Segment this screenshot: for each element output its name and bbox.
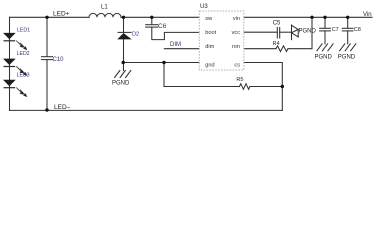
svg-text:LED3: LED3 bbox=[17, 73, 30, 79]
svg-text:D2: D2 bbox=[132, 31, 139, 37]
svg-text:Vin: Vin bbox=[363, 12, 372, 18]
svg-text:L1: L1 bbox=[101, 4, 108, 10]
svg-text:gnd: gnd bbox=[205, 62, 214, 68]
svg-text:boot: boot bbox=[205, 30, 216, 36]
svg-text:vin: vin bbox=[233, 16, 240, 22]
svg-text:LED–: LED– bbox=[54, 104, 71, 111]
svg-text:C8: C8 bbox=[354, 27, 361, 33]
svg-text:C7: C7 bbox=[332, 27, 339, 33]
svg-text:C5: C5 bbox=[273, 21, 281, 27]
svg-text:C10: C10 bbox=[53, 57, 65, 63]
svg-text:LED+: LED+ bbox=[53, 10, 70, 17]
svg-text:sw: sw bbox=[205, 16, 213, 22]
svg-text:R4: R4 bbox=[273, 41, 280, 47]
svg-text:PGND: PGND bbox=[112, 81, 130, 87]
svg-text:PGND: PGND bbox=[338, 55, 356, 61]
svg-text:PGND: PGND bbox=[315, 55, 333, 61]
svg-text:U3: U3 bbox=[200, 4, 208, 10]
svg-text:R5: R5 bbox=[236, 77, 243, 83]
svg-text:DIM: DIM bbox=[170, 42, 181, 48]
svg-text:dim: dim bbox=[205, 44, 214, 50]
svg-text:PGND: PGND bbox=[299, 29, 317, 35]
svg-text:cs: cs bbox=[234, 62, 240, 68]
svg-text:C6: C6 bbox=[158, 23, 167, 30]
svg-text:vcc: vcc bbox=[232, 30, 241, 36]
svg-text:ron: ron bbox=[232, 44, 240, 50]
svg-text:LED1: LED1 bbox=[17, 28, 30, 34]
svg-text:LED2: LED2 bbox=[17, 51, 30, 57]
